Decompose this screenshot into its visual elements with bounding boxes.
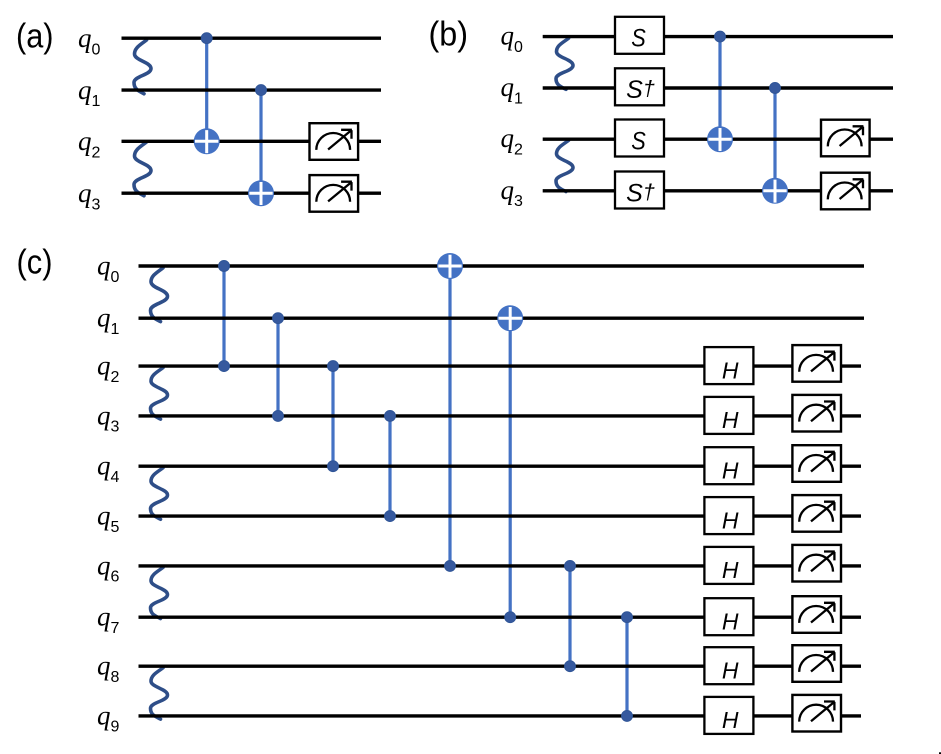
entangler squiggle q0-q1 (a) <box>134 40 151 94</box>
H gate q4 (c) <box>704 447 753 484</box>
measurement q2 (a) <box>310 123 359 160</box>
measurement q5 (c) <box>792 495 841 532</box>
svg-text:S†: S† <box>626 179 655 207</box>
measurement q4 (c) <box>792 445 841 482</box>
measurement q3 (a) <box>310 175 359 212</box>
control dot q0 (b) <box>715 31 726 42</box>
CNOT wire q7-q1 (c) <box>509 318 512 617</box>
wire q3 (b) <box>543 189 893 192</box>
CZ wire q3-q5 (c) <box>388 416 391 516</box>
entangler squiggle q2-q3 (a) <box>134 142 151 196</box>
wire q6 (c) <box>139 564 862 567</box>
entangler squiggle q2-q3 (c) <box>151 368 168 419</box>
CNOT target q2 (a) <box>194 128 220 154</box>
svg-text:(a): (a) <box>16 18 54 56</box>
CZ dot q9 (c) <box>622 710 633 721</box>
CZ dot q0 (c) <box>219 261 230 272</box>
svg-text:(b): (b) <box>429 16 469 54</box>
H gate q8 (c) <box>704 647 753 684</box>
S gate q0 (b) <box>615 17 664 54</box>
CZ wire q2-q4 (c) <box>331 366 334 466</box>
CZ wire q6-q8 (c) <box>568 566 571 666</box>
S-dagger gate q1 (b) <box>615 68 664 105</box>
H gate q2 (c) <box>704 347 753 384</box>
S gate q2 (b) <box>615 120 664 157</box>
control dot q1 (b) <box>770 83 781 94</box>
wire q8 (c) <box>139 665 862 668</box>
wire q3 (c) <box>139 414 862 417</box>
measurement q8 (c) <box>792 645 841 682</box>
measurement q6 (c) <box>792 545 841 582</box>
svg-text:S†: S† <box>626 76 655 104</box>
H gate q9 (c) <box>704 697 753 734</box>
wire q9 (c) <box>139 714 862 717</box>
wire q4 (c) <box>139 465 862 468</box>
measurement q2 (b) <box>821 120 870 157</box>
wire q0 (a) <box>122 37 382 40</box>
control dot q0 (a) <box>201 33 212 44</box>
CNOT wire q0-q2 (a) <box>205 38 208 141</box>
CZ dot q5 (c) <box>385 511 396 522</box>
CNOT wire q0-q2 (b) <box>718 37 721 140</box>
CNOT target q1 (c) <box>497 305 523 331</box>
wire q2 (c) <box>139 364 862 367</box>
svg-text:H: H <box>722 608 739 634</box>
CNOT wire q6-q0 (c) <box>448 266 451 566</box>
svg-text:S: S <box>631 25 646 53</box>
CZ dot q7 (c) <box>622 612 633 623</box>
CNOT wire q1-q3 (b) <box>773 88 776 191</box>
CZ wire q7-q9 (c) <box>625 617 628 716</box>
measurement q3 (b) <box>821 173 870 210</box>
H gate q7 (c) <box>704 598 753 635</box>
entangler squiggle q4-q5 (c) <box>151 468 168 519</box>
wire q5 (c) <box>139 514 862 517</box>
svg-text:H: H <box>722 657 739 683</box>
CNOT wire q1-q3 (a) <box>259 90 262 193</box>
H gate q5 (c) <box>704 497 753 534</box>
CZ dot q3 lower (c) <box>385 410 396 421</box>
svg-text:H: H <box>722 357 739 383</box>
measurement q7 (c) <box>792 596 841 633</box>
CZ dot q6 (c) <box>565 560 576 571</box>
entangler squiggle q0-q1 (c) <box>151 268 168 322</box>
svg-text:S: S <box>631 127 646 155</box>
CZ wire q0-q2 (c) <box>222 266 225 366</box>
control dot q6 (c) <box>445 560 456 571</box>
CNOT target q3 (a) <box>248 180 274 206</box>
entangler squiggle q6-q7 (c) <box>151 567 168 618</box>
wire q2 (a) <box>122 140 382 143</box>
H gate q3 (c) <box>704 397 753 434</box>
wire q0 (c) <box>139 264 865 267</box>
wire q0 (b) <box>543 35 893 38</box>
CZ dot q2 lower (c) <box>328 361 339 372</box>
CZ dot q3 upper (c) <box>273 410 284 421</box>
svg-text:H: H <box>722 557 739 583</box>
svg-text:H: H <box>722 457 739 483</box>
CZ dot q2 upper (c) <box>219 361 230 372</box>
svg-text:H: H <box>722 707 739 733</box>
wire q3 (a) <box>122 191 382 194</box>
svg-text:(c): (c) <box>17 244 53 282</box>
wire q1 (c) <box>139 317 865 320</box>
measurement q2 (c) <box>792 345 841 382</box>
CNOT target q2 (b) <box>707 126 733 152</box>
CZ dot q4 (c) <box>328 461 339 472</box>
CZ wire q1-q3 (c) <box>276 318 279 416</box>
wire q1 (a) <box>122 88 382 91</box>
entangler squiggle q0-q1 (b) <box>556 38 573 89</box>
svg-text:H: H <box>722 407 739 433</box>
H gate q6 (c) <box>704 547 753 584</box>
entangler squiggle q2-q3 (b) <box>556 140 573 191</box>
measurement q3 (c) <box>792 395 841 432</box>
wire q7 (c) <box>139 616 862 619</box>
control dot q7 (c) <box>505 612 516 623</box>
S-dagger gate q3 (b) <box>615 172 664 209</box>
wire q1 (b) <box>543 86 893 89</box>
caption fragment mark bottom-right <box>939 752 941 754</box>
CNOT target q0 (c) <box>437 253 463 279</box>
measurement q9 (c) <box>792 695 841 732</box>
CZ dot q8 (c) <box>565 661 576 672</box>
svg-text:H: H <box>722 507 739 533</box>
CNOT target q3 (b) <box>762 178 788 204</box>
CZ dot q1 (c) <box>273 313 284 324</box>
wire q2 (b) <box>543 137 893 140</box>
entangler squiggle q8-q9 (c) <box>151 668 168 719</box>
control dot q1 (a) <box>256 85 267 96</box>
